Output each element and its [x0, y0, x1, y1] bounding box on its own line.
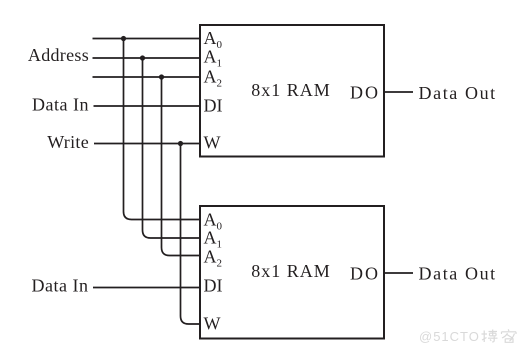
svg-text:DI: DI [204, 96, 223, 116]
junction node address bit 0 [121, 36, 126, 41]
svg-text:A: A [204, 47, 217, 67]
svg-text:A: A [204, 228, 217, 248]
svg-text:A: A [204, 247, 217, 267]
svg-text:DO: DO [350, 83, 380, 103]
svg-text:1: 1 [217, 239, 223, 251]
svg-text:8x1 RAM: 8x1 RAM [251, 80, 331, 100]
wire address bit 2 to U1 A2 [93, 76, 201, 78]
wire address bit 2 branch to U2 A2 [162, 77, 201, 256]
watermark glyph bo [482, 330, 498, 343]
wire U2 DO to Data Out [384, 272, 413, 274]
svg-text:Data In: Data In [32, 276, 89, 296]
wire address bit 1 branch to U2 A1 [143, 58, 201, 238]
wire Write to U1 W [94, 143, 200, 145]
pin label A0 (U2) [204, 210, 223, 233]
svg-text:2: 2 [217, 258, 223, 270]
pin label A0 (U1) [204, 28, 223, 51]
svg-text:W: W [204, 133, 221, 153]
svg-text:DO: DO [350, 264, 380, 284]
wire Write branch to U2 W [181, 144, 201, 325]
svg-text:Data Out: Data Out [419, 264, 497, 284]
junction node address bit 1 [140, 55, 145, 60]
svg-text:DI: DI [204, 276, 223, 296]
pin label A1 (U2) [204, 228, 223, 251]
junction node address bit 2 [159, 74, 164, 79]
svg-text:Address: Address [28, 45, 89, 65]
svg-text:2: 2 [217, 78, 223, 90]
wire address bit 1 to U1 A1 [93, 57, 201, 59]
wire address bit 0 to U1 A0 [93, 38, 201, 40]
pin label A1 (U1) [204, 47, 223, 70]
svg-text:0: 0 [217, 221, 223, 233]
svg-text:@51CTO: @51CTO [419, 329, 480, 344]
svg-text:1: 1 [217, 58, 223, 70]
svg-text:8x1 RAM: 8x1 RAM [251, 261, 331, 281]
pin label A2 (U1) [204, 67, 223, 90]
svg-text:A: A [204, 28, 217, 48]
RAM U1 (top 8x1 RAM block) [200, 25, 384, 157]
RAM U2 (bottom 8x1 RAM block) [200, 206, 384, 339]
wire Data In to U2 DI [93, 287, 200, 289]
watermark glyph ke [502, 329, 517, 342]
svg-text:A: A [204, 210, 217, 230]
wire Data In to U1 DI [94, 105, 201, 107]
svg-text:Data In: Data In [32, 95, 89, 115]
svg-text:0: 0 [217, 39, 223, 51]
wire address bit 0 branch to U2 A0 [124, 39, 201, 220]
svg-text:W: W [204, 314, 221, 334]
wire U1 DO to Data Out [384, 91, 413, 93]
svg-text:A: A [204, 67, 217, 87]
svg-text:Write: Write [47, 132, 89, 152]
junction node Write [178, 141, 183, 146]
svg-text:Data Out: Data Out [419, 83, 497, 103]
pin label A2 (U2) [204, 247, 223, 270]
